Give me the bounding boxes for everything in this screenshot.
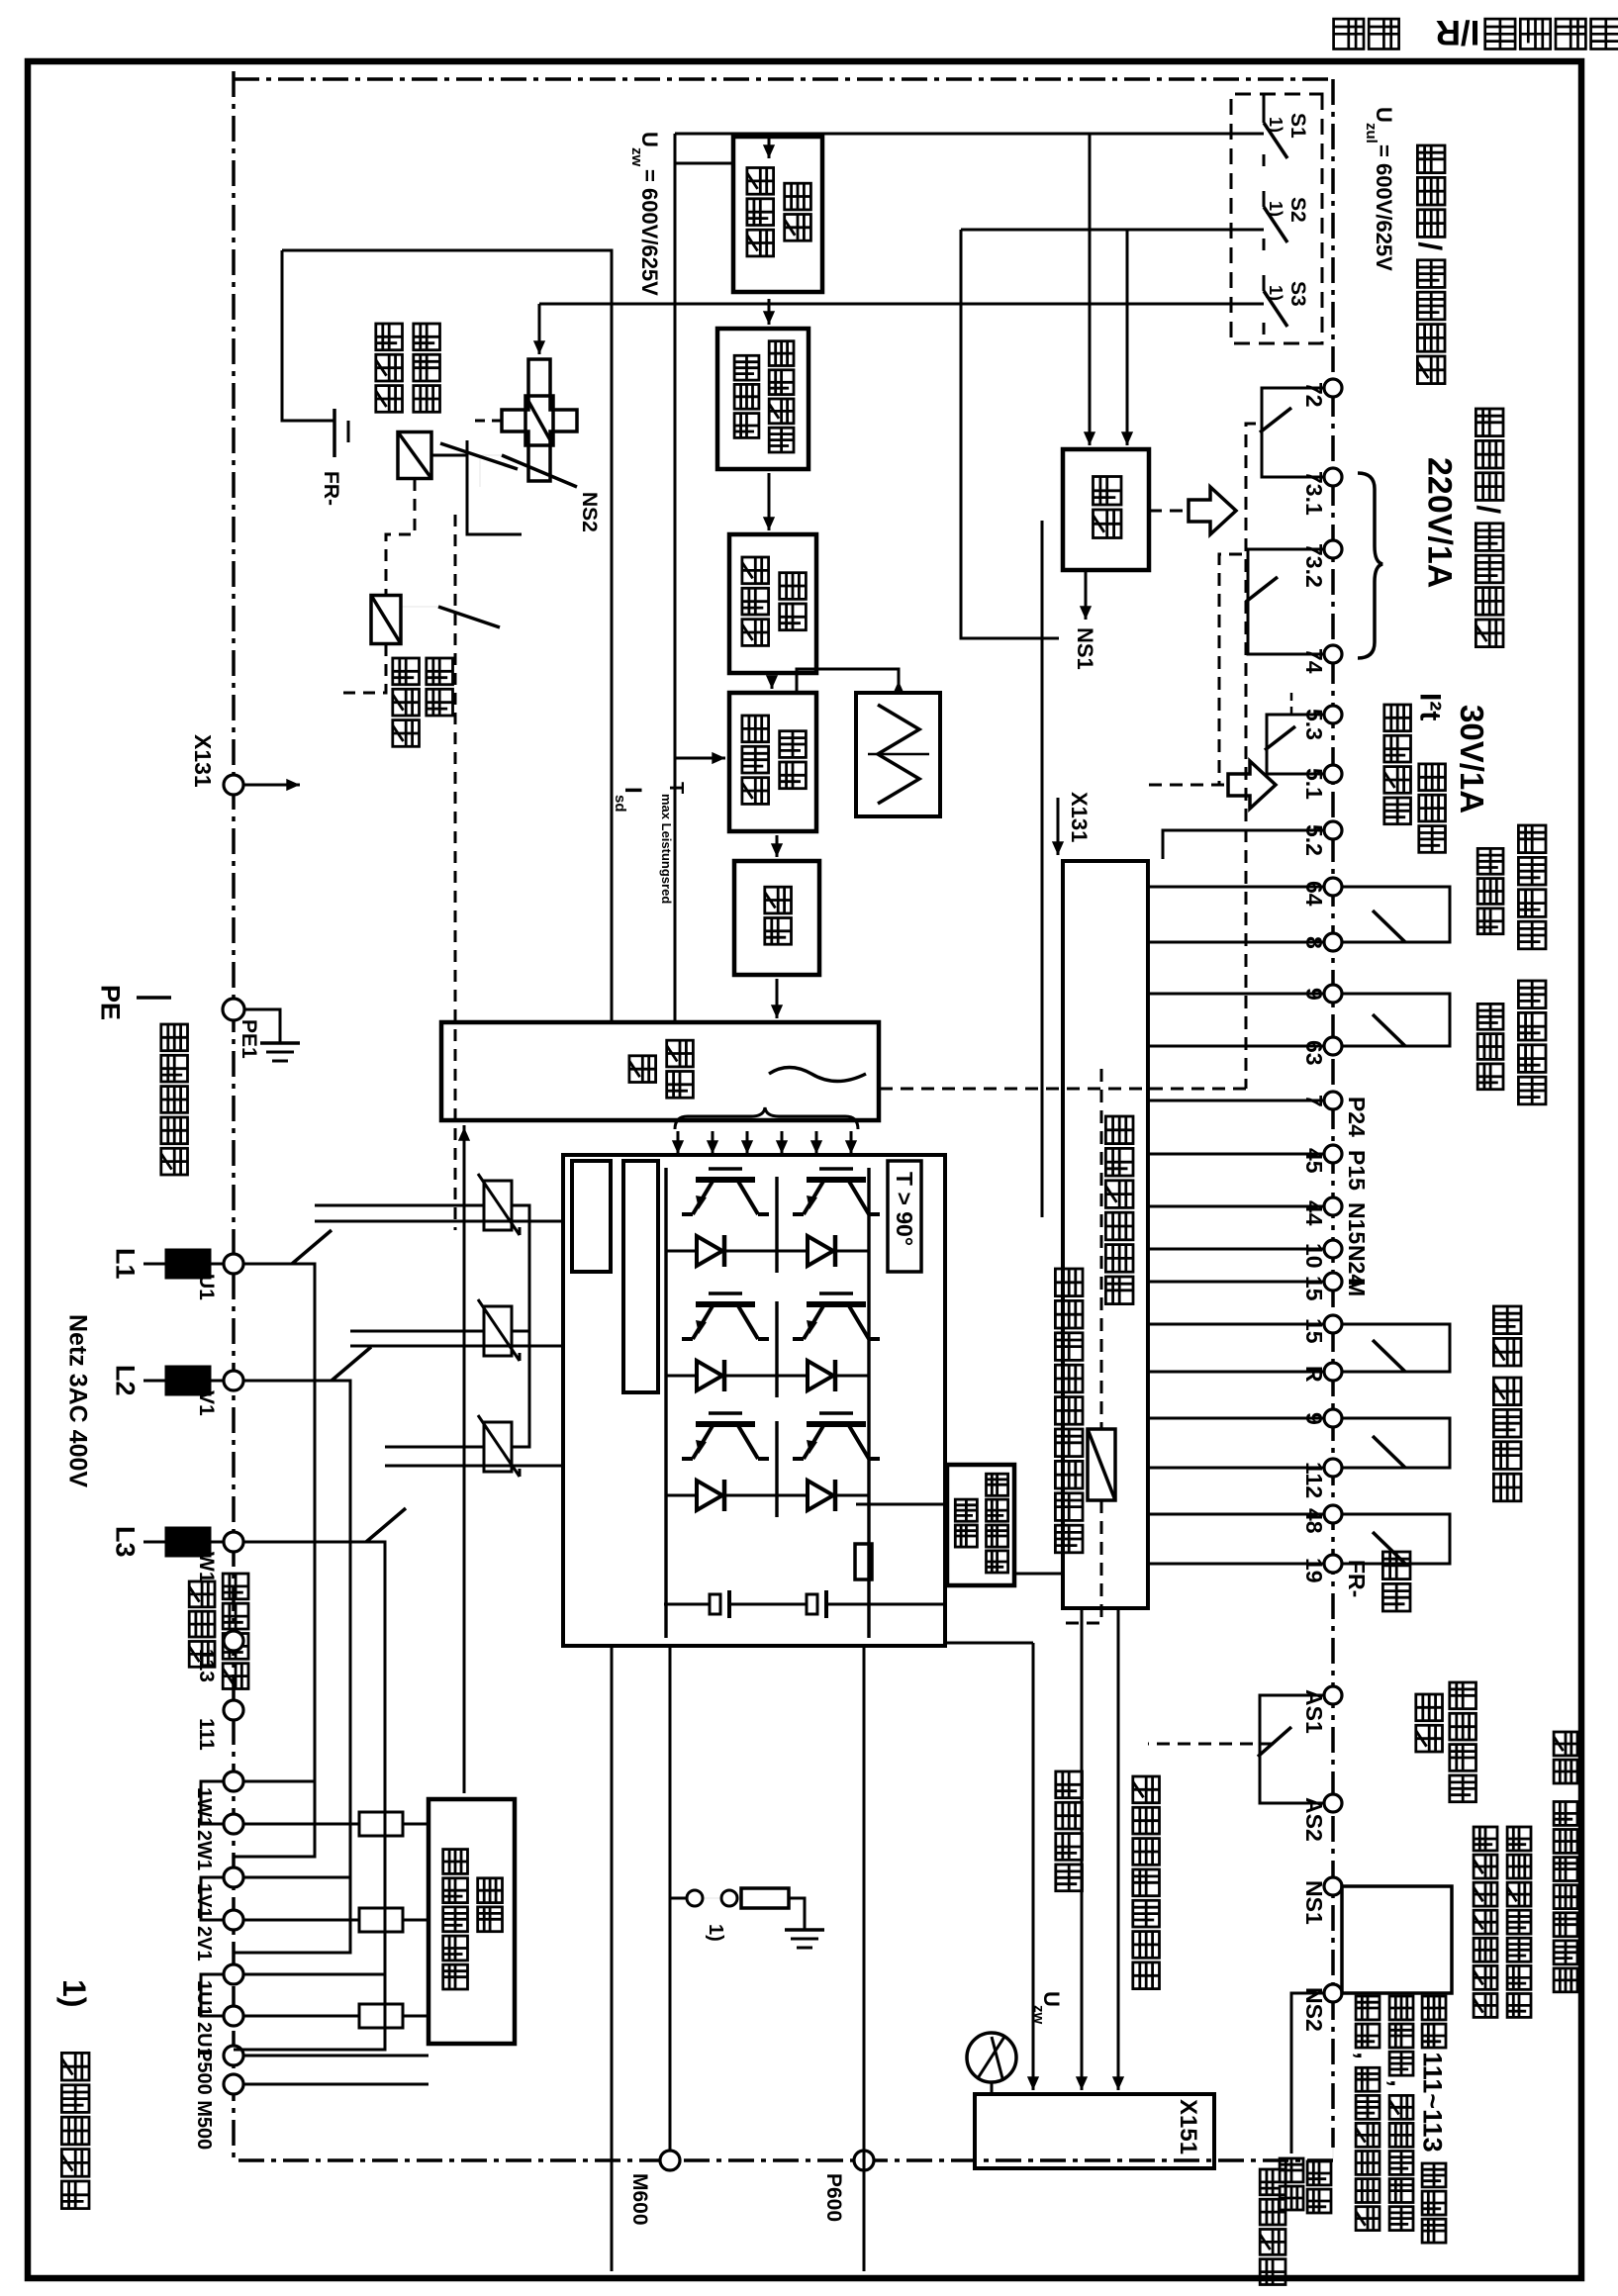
bridge mid rail 1234 xyxy=(775,1177,778,1273)
comb wire 1057 xyxy=(1148,1045,1324,1048)
label 脉冲使能 xyxy=(1518,981,1546,1008)
big open arrow to 5.x group xyxy=(1228,761,1276,809)
comb wire 1262 xyxy=(1148,1248,1324,1251)
PE1 ground lead xyxy=(244,1009,280,1043)
svg-text:19: 19 xyxy=(1301,1558,1327,1583)
svg-text:48: 48 xyxy=(1301,1508,1327,1534)
label 装置使能 xyxy=(1056,1771,1083,1798)
block T>90 thermal xyxy=(888,1161,921,1272)
blade xyxy=(1373,910,1405,942)
blade xyxy=(1373,1436,1405,1468)
wire into monitor upper xyxy=(1089,134,1092,416)
blade xyxy=(1373,1340,1405,1372)
svg-text:sd: sd xyxy=(612,795,628,813)
svg-text:2W1: 2W1 xyxy=(193,1830,215,1870)
bridge feed W xyxy=(385,1465,563,1468)
gate drive arrow 4 xyxy=(746,1131,749,1154)
svg-text:15: 15 xyxy=(1301,1318,1327,1344)
block 监控 (monitoring) xyxy=(1063,449,1149,570)
wire Uzw drop xyxy=(943,1642,1033,1645)
precharge blade 1 xyxy=(440,443,518,469)
svg-text:X131: X131 xyxy=(190,734,216,788)
block 电压控制器 (voltage controller) xyxy=(733,137,822,292)
blade2 wires xyxy=(401,596,438,607)
svg-text:S1: S1 xyxy=(1286,113,1309,139)
terminal 10 xyxy=(1324,1240,1342,1258)
terminal P600 xyxy=(854,2151,874,2170)
label 接触器 xyxy=(376,324,403,350)
wire NS2 to bus xyxy=(1291,1993,1324,2153)
diode lower phase 1 xyxy=(697,1236,722,1266)
cap2 lead xyxy=(729,1603,807,1606)
wire S2 branch xyxy=(961,230,1059,638)
stub a xyxy=(1342,887,1450,942)
sensor box stub right xyxy=(1014,1573,1063,1576)
svg-text:44: 44 xyxy=(1301,1200,1327,1226)
diode stub dn 1360 xyxy=(666,1375,678,1378)
loop 1U1-2U1 xyxy=(201,1974,224,2016)
svg-text:max Leistungsred: max Leistungsred xyxy=(659,794,674,904)
svg-text:74: 74 xyxy=(1301,648,1327,674)
terminal 15 xyxy=(1324,1315,1342,1333)
diode stub up 1360 xyxy=(852,1375,869,1378)
dashed stub down xyxy=(341,644,386,693)
block 电流控制器 (current controller) xyxy=(729,534,816,673)
IGBT upper phase 3 xyxy=(807,1421,866,1427)
sync line to controller xyxy=(463,1125,466,1793)
comb wire 1483 xyxy=(1148,1467,1324,1470)
precharge wire upper xyxy=(467,440,522,534)
terminal 45 xyxy=(1324,1145,1342,1163)
diode upper phase 3 xyxy=(808,1481,833,1510)
wire into monitor lower xyxy=(1126,230,1129,416)
blade 72 xyxy=(1260,408,1291,432)
main contactor cross symbol with coil xyxy=(502,359,577,481)
blade AS1 xyxy=(1258,1727,1291,1757)
coil1 top lead xyxy=(431,454,467,457)
jumper box terminals NS1/NS2 (external link) xyxy=(1342,1886,1452,1993)
bridge P rail xyxy=(867,1168,870,1638)
vc loop to Isd wire xyxy=(675,162,733,165)
svg-text:1): 1) xyxy=(1266,117,1285,133)
sensor box stub left xyxy=(856,1503,947,1506)
diode stub dn 1234 xyxy=(666,1250,678,1253)
svg-text:,: , xyxy=(1352,2052,1381,2059)
relay coil safe-ready xyxy=(1088,1429,1115,1500)
label 电子供电电源 xyxy=(1105,1116,1133,1144)
module boundary dash-dot bottom xyxy=(232,71,236,2160)
terminal 5.3 xyxy=(1324,706,1342,723)
X131 arrow up xyxy=(244,784,300,787)
comb wire 1004 xyxy=(1148,993,1324,996)
svg-text:2V1: 2V1 xyxy=(193,1926,215,1961)
terminal 5.2 xyxy=(1324,821,1342,839)
svg-text:P500 M500: P500 M500 xyxy=(193,2049,215,2150)
switch S3 1) xyxy=(1263,275,1266,291)
wire 73.2 bracket xyxy=(1248,549,1324,654)
svg-text:111: 111 xyxy=(195,1718,218,1751)
svg-text:,: , xyxy=(1385,2079,1415,2087)
P600 rail xyxy=(863,1646,866,2271)
arrow into X151 a xyxy=(1117,2068,1120,2090)
svg-text:15: 15 xyxy=(1301,1276,1327,1301)
IGBT lower phase 2 xyxy=(696,1301,755,1307)
terminal AS2 xyxy=(1324,1794,1342,1812)
wire D below supply box xyxy=(1041,521,1044,1217)
diode lower phase 2 xyxy=(697,1361,722,1390)
svg-text:P600: P600 xyxy=(822,2173,845,2222)
tap 1V1 xyxy=(243,1876,350,1879)
cap1 lead xyxy=(826,1603,943,1606)
terminal pair P500/M500 xyxy=(224,2046,243,2065)
note line6 xyxy=(1356,1996,1380,2020)
diode stub mid2 1481 xyxy=(741,1494,777,1497)
terminal AS1 xyxy=(1324,1686,1342,1704)
fuse lead up xyxy=(403,2015,428,2018)
terminal W1 with fuse L3 xyxy=(224,1532,243,1552)
svg-text:= 600V/625V: = 600V/625V xyxy=(637,169,662,296)
svg-text:111~113: 111~113 xyxy=(1418,2052,1448,2152)
note 注意 line1 xyxy=(1554,1732,1577,1756)
aux fuse feed 2W1 xyxy=(243,1823,359,1826)
block triangle-wave generator xyxy=(856,693,940,816)
X131 supply arrow xyxy=(1057,798,1060,855)
DC bus bar rect 2 (hollow) xyxy=(623,1161,658,1392)
inverter bridge outline box xyxy=(563,1155,945,1646)
loop 1V1-2V1 xyxy=(201,1877,224,1920)
comb wire 1112 xyxy=(1148,1100,1324,1102)
dashed NS1 bus A xyxy=(1246,424,1256,1089)
terminal 15 xyxy=(1324,1273,1342,1291)
svg-text:P24: P24 xyxy=(1344,1097,1370,1137)
big open arrow to 73.x group xyxy=(1189,487,1236,534)
comb wire 1433 xyxy=(1148,1417,1324,1420)
label 禁止启动 xyxy=(1450,1682,1476,1709)
terminal U1 with fuse L1 xyxy=(224,1254,243,1274)
diode stub mid2 1234 xyxy=(741,1250,777,1253)
varistor phase V xyxy=(484,1306,512,1356)
label 装置总线 xyxy=(1260,2169,1285,2195)
svg-text:L2: L2 xyxy=(111,1365,141,1396)
block 控制 (gating control) xyxy=(734,861,819,975)
blade xyxy=(1373,1532,1405,1564)
svg-text:1U1: 1U1 xyxy=(193,1980,215,2017)
terminal V1 with fuse L2 xyxy=(224,1371,243,1390)
label 启动 xyxy=(1382,1552,1410,1579)
rail phase V xyxy=(234,1381,350,1953)
arrow into X151 c xyxy=(1032,2068,1035,2090)
NS2 blade wire xyxy=(480,455,502,487)
precharge contactor coil xyxy=(398,432,431,479)
svg-text:U: U xyxy=(637,132,662,147)
svg-text:220V/1A: 220V/1A xyxy=(1421,457,1459,588)
varistor W leads xyxy=(385,1446,484,1449)
label 线路接触 xyxy=(223,1574,248,1599)
block 电流设定点极限 (current setpoint limit) xyxy=(717,329,809,469)
terminal pair 1W1/2W1 xyxy=(224,1771,243,1791)
svg-text:U: U xyxy=(1372,107,1396,123)
comb wire 896 xyxy=(1148,886,1324,889)
gnd branch lead xyxy=(703,1897,719,1899)
module boundary dash-dot right bottom corner xyxy=(1332,2148,1334,2160)
gnd res lead xyxy=(789,1898,805,1930)
block 电源、整流和同步 (power supply/rectifier/sync) xyxy=(428,1799,515,2044)
terminal 111 xyxy=(224,1700,243,1720)
svg-text:P15: P15 xyxy=(1344,1150,1370,1191)
gate drive arrow 5 xyxy=(712,1131,714,1154)
terminal X131 xyxy=(224,775,243,795)
tri-pg link xyxy=(797,669,899,693)
svg-text:1): 1) xyxy=(56,1979,92,2007)
svg-text:NS1: NS1 xyxy=(1073,627,1097,670)
line contactor blade at 1558 xyxy=(366,1508,406,1542)
wire S1 bus xyxy=(1263,94,1266,107)
FR- stub wire xyxy=(282,250,334,421)
svg-text:1V1: 1V1 xyxy=(193,1883,215,1919)
comb wire 1219 xyxy=(1148,1205,1324,1208)
arrow into X151 b xyxy=(1081,2068,1084,2090)
line contactor blade at 1277 xyxy=(292,1230,332,1264)
varistor phase W xyxy=(484,1422,512,1472)
terminal 8 xyxy=(1324,933,1342,951)
fuse stub xyxy=(210,1380,224,1383)
svg-text:PE1: PE1 xyxy=(238,1019,260,1059)
note line5 xyxy=(1389,1996,1413,2020)
module boundary dash-dot right xyxy=(234,2158,1333,2162)
fuse stub xyxy=(210,1263,224,1266)
terminal PE1 with ground symbol xyxy=(223,999,244,1020)
svg-text:72: 72 xyxy=(1301,382,1327,408)
gate drive arrow 2 xyxy=(815,1131,818,1154)
diode stub up 1481 xyxy=(852,1494,869,1497)
IGBT lower phase 1 xyxy=(696,1177,755,1183)
line relay coil xyxy=(371,596,401,644)
label 电机过热 xyxy=(1384,705,1411,731)
note line3 xyxy=(1474,1827,1497,1851)
dashed monitor to arrow1 xyxy=(1149,510,1187,513)
brace for terminals 73.1..74 (220V/1A signal group) xyxy=(1358,473,1382,658)
svg-text:113: 113 xyxy=(195,1649,218,1682)
arrow Isd into pg xyxy=(675,757,725,760)
terminal 73.2 xyxy=(1324,540,1342,558)
fuse (hollow) aux feed xyxy=(359,2004,403,2028)
wire supply to X151 (signal1) xyxy=(1117,1608,1120,2090)
dashed box with switches S1 S2 S3 xyxy=(1231,94,1322,343)
stub a xyxy=(1342,1418,1450,1468)
diode stub mid1 1234 xyxy=(777,1250,789,1253)
terminal 5.1 xyxy=(1324,765,1342,783)
diode stub dn 1481 xyxy=(666,1494,678,1497)
svg-text:X131: X131 xyxy=(1067,792,1092,842)
ground branch to M600 rail xyxy=(670,1897,687,1900)
varistor phase U xyxy=(484,1181,512,1230)
wire supply to X151 (signal2) xyxy=(1081,1608,1084,2090)
tap 1U1 xyxy=(243,1973,385,1976)
terminal R xyxy=(1324,1363,1342,1381)
diode stub up 1234 xyxy=(852,1250,869,1253)
arrow into monitor upper xyxy=(1089,416,1092,445)
terminal 74 xyxy=(1324,645,1342,663)
comb wire 952 xyxy=(1148,941,1324,944)
cap2 lead2 xyxy=(664,1603,710,1606)
lead xyxy=(143,1263,166,1266)
diode lower phase 3 xyxy=(697,1481,722,1510)
stub a xyxy=(1342,1514,1450,1564)
note line7a xyxy=(1307,2161,1331,2185)
block 直流母线传感 (DC-bus sensing) xyxy=(947,1465,1014,1585)
label 信息 xyxy=(1416,1694,1443,1721)
svg-text:M: M xyxy=(1344,1278,1370,1296)
wire S1 vertical xyxy=(675,133,1264,136)
comb wire 1166 xyxy=(1148,1153,1324,1156)
brace from 控制器 to gate arrows xyxy=(675,1107,858,1129)
label （未延迟） pulse xyxy=(1477,1004,1503,1029)
svg-text:/: / xyxy=(1471,505,1506,514)
wire Isd horizontal xyxy=(674,134,677,1022)
terminal 73.1 xyxy=(1324,468,1342,486)
note line7b xyxy=(1280,2158,1303,2182)
varistor U leads xyxy=(315,1204,484,1207)
terminal 63 xyxy=(1324,1037,1342,1055)
module boundary dash-dot top (terminal strip) xyxy=(1331,79,1335,2148)
fuse (hollow) aux feed xyxy=(359,1812,403,1836)
wire 72 bracket xyxy=(1262,388,1324,477)
svg-text:I²t: I²t xyxy=(1414,693,1447,720)
diode upper phase 2 xyxy=(808,1361,833,1390)
aux fuse feed 2V1 xyxy=(243,1919,359,1922)
dashed NS1 bus B xyxy=(1219,554,1242,785)
gauge symbol xyxy=(967,2033,1016,2082)
svg-text:1): 1) xyxy=(1266,201,1285,217)
varistor tops 2 xyxy=(512,1331,529,1447)
svg-text:NS2: NS2 xyxy=(578,492,601,532)
svg-text:Netz 3AC 400V: Netz 3AC 400V xyxy=(63,1314,91,1487)
wire 5.2 to supply xyxy=(1163,830,1324,859)
bus resistor xyxy=(855,1544,872,1579)
DC bus bar rect 1 (hollow) xyxy=(572,1161,611,1272)
wire S2 vertical xyxy=(961,229,1264,232)
fuse stub xyxy=(210,1541,224,1544)
arrow into 电压控制器 xyxy=(768,134,771,158)
bridge feed V xyxy=(350,1345,563,1348)
svg-text:S2: S2 xyxy=(1286,197,1309,223)
note line2 xyxy=(1507,1827,1531,1851)
tap 1W1 xyxy=(243,1780,315,1783)
svg-text:= 600V/625V: = 600V/625V xyxy=(1372,144,1396,271)
terminal 112 xyxy=(1324,1459,1342,1477)
svg-text:/: / xyxy=(1412,241,1448,250)
label 预充电 xyxy=(414,324,440,350)
wire 5.3 bracket xyxy=(1267,715,1324,774)
label 器信息 xyxy=(189,1581,215,1607)
svg-text:PE: PE xyxy=(96,985,126,1020)
PE wire xyxy=(137,996,171,1000)
comb wire 1295 xyxy=(1148,1281,1324,1284)
comb wire 1338 xyxy=(1148,1323,1324,1326)
svg-text:T > 90°: T > 90° xyxy=(892,1172,917,1246)
contact blade 2 xyxy=(438,607,500,627)
comb wire 1386 xyxy=(1148,1371,1324,1374)
block X151 device-bus connector xyxy=(975,2094,1214,2168)
terminal 44 xyxy=(1324,1197,1342,1215)
bridge feed U xyxy=(315,1220,563,1223)
diode stub mid2 1360 xyxy=(741,1375,777,1378)
arrow vc to limit xyxy=(768,299,771,325)
rail phase U xyxy=(234,1264,315,1857)
NS2 blade xyxy=(502,455,577,487)
bridge N rail xyxy=(664,1168,667,1638)
terminal 48 xyxy=(1324,1505,1342,1523)
diode stub mid1 1360 xyxy=(777,1375,789,1378)
label 设定方式 xyxy=(1493,1378,1521,1405)
switch S1 1) xyxy=(1263,107,1266,123)
block 控制器 (controller, tall) xyxy=(441,1022,879,1120)
svg-text:1W1: 1W1 xyxy=(193,1787,215,1828)
note line4 xyxy=(1422,1996,1446,2020)
wire P500 xyxy=(243,2055,428,2057)
module boundary dash-dot left xyxy=(234,77,1333,81)
svg-text:S3: S3 xyxy=(1286,281,1309,307)
wire S3 vertical xyxy=(539,303,1264,306)
label （未延迟） drive xyxy=(1477,848,1503,874)
comb wire 1580 xyxy=(1148,1563,1324,1566)
arrow limit to cc xyxy=(768,473,771,530)
terminal 72 xyxy=(1324,379,1342,397)
svg-text:1): 1) xyxy=(1266,285,1285,301)
terminal 9 xyxy=(1324,985,1342,1003)
svg-text:zw: zw xyxy=(628,147,645,167)
arrow into monitor lower xyxy=(1126,416,1129,445)
wire M500 xyxy=(243,2083,428,2086)
label 供电电源和信号 xyxy=(1133,1776,1160,1803)
dashed wire to AS contact xyxy=(1148,1743,1274,1746)
svg-text:30V/1A: 30V/1A xyxy=(1454,705,1490,813)
dashed safety line2 xyxy=(1063,1500,1101,1623)
dash stub 5.3 xyxy=(1290,693,1293,715)
dashed blade link xyxy=(454,515,457,1230)
svg-text:X151: X151 xyxy=(1175,2099,1201,2154)
lead xyxy=(143,1541,166,1544)
terminal 9 xyxy=(1324,1409,1342,1427)
IGBT lower phase 3 xyxy=(696,1421,755,1427)
fuse lead up xyxy=(403,1919,428,1922)
wire AS bracket xyxy=(1260,1695,1324,1803)
svg-text:FR-: FR- xyxy=(320,471,342,506)
gate drive arrow 1 xyxy=(850,1131,853,1154)
label 准备好/故障信息 (brace group) xyxy=(1475,409,1503,436)
dashed coil1-coil2 xyxy=(386,479,415,596)
block 脉冲发生器 (pulse generator) xyxy=(729,693,816,831)
aux fuse feed 2U1 xyxy=(243,2015,359,2018)
terminal NS2 xyxy=(1324,1984,1342,2002)
blade xyxy=(1373,1014,1405,1046)
svg-text:I: I xyxy=(619,787,646,794)
terminal M600 xyxy=(660,2151,680,2170)
dashed NS1 bus A drop xyxy=(881,1088,1246,1091)
terminal 64 xyxy=(1324,878,1342,896)
wire B horizontal xyxy=(282,250,612,1022)
arrow sync into controller xyxy=(463,1127,466,1148)
terminal pair 1U1/2U1 xyxy=(224,1964,243,1984)
diode stub mid1 1481 xyxy=(777,1494,789,1497)
wire Uzw to X151 xyxy=(1032,1643,1035,2090)
blade 73.2 xyxy=(1246,577,1278,602)
dashed monitor to arrow2 xyxy=(1149,784,1224,787)
loop 1W1-2W1 xyxy=(201,1781,224,1824)
arrow pg to ctrl xyxy=(776,835,779,857)
fuse (hollow) aux feed xyxy=(359,1908,403,1932)
svg-text:R: R xyxy=(1301,1366,1327,1383)
